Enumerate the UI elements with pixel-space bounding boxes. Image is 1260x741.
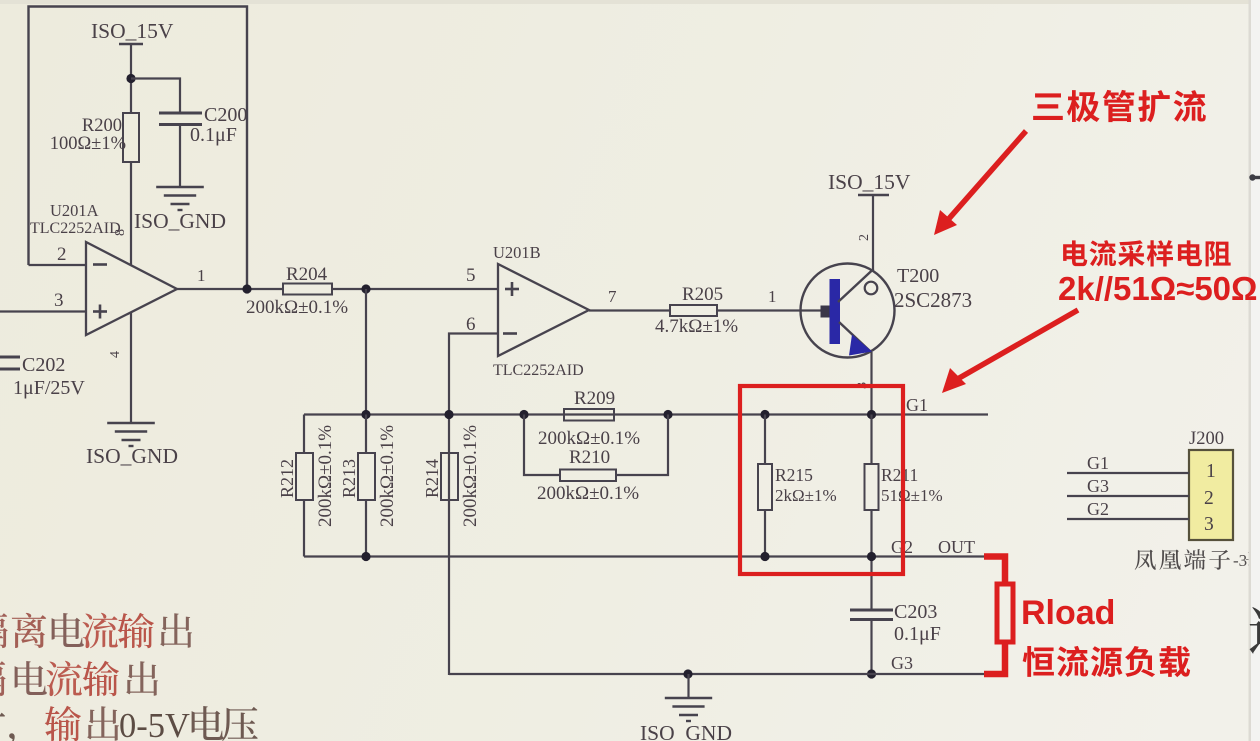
red highlight box around R215/R211 (740, 386, 903, 574)
resistor R213 (358, 453, 375, 500)
wire R210 branch (524, 415, 560, 476)
svg-text:ISO_GND: ISO_GND (86, 444, 178, 468)
svg-text:200kΩ±0.1%: 200kΩ±0.1% (538, 428, 640, 449)
resistor R212 (296, 453, 313, 500)
svg-text:1: 1 (1206, 461, 1216, 482)
partial wire stub at right edge (1251, 176, 1260, 179)
svg-text:U201A: U201A (50, 201, 99, 220)
svg-text:1μF/25V: 1μF/25V (13, 377, 85, 399)
node junction at R200/C200 (126, 74, 135, 83)
resistor R215 (758, 464, 772, 510)
svg-text:C200: C200 (204, 104, 247, 126)
svg-text:OUT: OUT (938, 537, 975, 557)
T200 emitter arrow (blue) (849, 335, 872, 356)
svg-text:4.7kΩ±1%: 4.7kΩ±1% (655, 316, 738, 337)
node R211 bottom / OUT (867, 552, 876, 561)
T200 collector stroke (838, 269, 874, 302)
node R215 bottom (760, 552, 769, 561)
annotation: 三极管扩流 (transistor current boost) (1033, 93, 1063, 120)
T200 base bar (blue) (830, 279, 841, 344)
svg-text:100Ω±1%: 100Ω±1% (50, 134, 126, 154)
svg-text:R210: R210 (569, 447, 610, 468)
svg-text:3: 3 (1204, 514, 1214, 535)
svg-text:G3: G3 (1087, 476, 1109, 496)
svg-text:TLC2252AID: TLC2252AID (493, 362, 584, 379)
capacitor C203 (850, 609, 893, 612)
capacitor C202 (cut at left edge) (0, 356, 20, 359)
red arrow to T200 (946, 131, 1026, 222)
wire emitter down to G1 bus (870, 352, 872, 415)
node R213 bottom (361, 552, 370, 561)
svg-text:2k//51Ω≈50Ω: 2k//51Ω≈50Ω (1058, 270, 1257, 307)
transistor T200 body circle (801, 264, 895, 358)
svg-text:0.1μF: 0.1μF (190, 124, 237, 146)
svg-text:Rload: Rload (1021, 594, 1115, 632)
svg-text:ISO_GND: ISO_GND (640, 721, 732, 741)
wire junction to C200 (131, 79, 180, 113)
wire R215 top (764, 415, 766, 465)
svg-text:ISO_GND: ISO_GND (134, 209, 226, 233)
svg-text:R200: R200 (82, 116, 122, 136)
svg-text:200kΩ±0.1%: 200kΩ±0.1% (460, 425, 481, 527)
svg-text:200kΩ±0.1%: 200kΩ±0.1% (315, 425, 336, 527)
node ground tap (683, 669, 692, 678)
svg-text:0.1μF: 0.1μF (894, 623, 941, 645)
svg-text:R211: R211 (881, 465, 918, 485)
Rload bracket bottom (984, 642, 1005, 674)
U201B plus input marker (505, 288, 519, 291)
svg-text:C203: C203 (894, 601, 937, 623)
svg-text:200kΩ±0.1%: 200kΩ±0.1% (377, 425, 398, 527)
op-amp U201A triangle (86, 242, 177, 335)
caption line2: (隔)电流输出 (0, 661, 6, 696)
caption line1: (隔)离电流输出 (0, 613, 8, 648)
annotation: 恒流源负载 (constant current source load) (1023, 646, 1054, 677)
wire node down to divider bus (365, 289, 367, 415)
svg-text:4: 4 (108, 351, 123, 358)
svg-text:G1: G1 (1087, 453, 1109, 473)
wire U201B output to R205 (589, 309, 670, 311)
svg-text:2SC2873: 2SC2873 (894, 288, 972, 312)
wire G1 bus (304, 413, 988, 415)
svg-text:51Ω±1%: 51Ω±1% (881, 486, 943, 505)
svg-text:2: 2 (857, 234, 872, 241)
wire R200 to U201A V+ (130, 162, 132, 265)
base pad (821, 306, 830, 318)
resistor R211 (865, 464, 879, 510)
capacitor C200 (159, 112, 202, 115)
svg-text:J200: J200 (1189, 429, 1224, 449)
wire U201A output (177, 288, 283, 290)
svg-text:2: 2 (57, 244, 67, 265)
junction nodes on G1 bus (361, 410, 370, 419)
node at R204 output (361, 284, 370, 293)
svg-text:200kΩ±0.1%: 200kΩ±0.1% (537, 483, 639, 504)
wire power to R200 (130, 44, 132, 113)
ground ISO_GND (bottom) (665, 697, 712, 700)
ground ISO_GND (top) (156, 186, 204, 189)
connector J200 body (1189, 450, 1233, 540)
svg-text:6: 6 (466, 314, 476, 335)
svg-text:R213: R213 (339, 459, 359, 498)
small loop on collector (865, 282, 878, 295)
wire C203 to G3 bus (870, 620, 872, 675)
Rload resistor symbol (997, 584, 1013, 642)
svg-text:0-5V: 0-5V (119, 707, 190, 741)
wire R213 top (365, 415, 367, 454)
wire J200 pin3 (G2) (1067, 518, 1189, 520)
svg-text:T200: T200 (897, 265, 939, 287)
wire power to collector (872, 195, 874, 271)
wire U201A V- to ground (130, 312, 132, 422)
svg-text:5: 5 (466, 265, 476, 286)
partial glyph 这 at right edge (1250, 607, 1260, 654)
T200 emitter stroke (839, 322, 871, 352)
svg-text:1: 1 (197, 266, 206, 285)
svg-text:R212: R212 (277, 459, 297, 498)
wire to bottom ground (687, 674, 689, 697)
wire R211 to G2 node (870, 510, 872, 610)
wire bus corner down to R212 (303, 415, 305, 454)
svg-text:ISO_15V: ISO_15V (828, 170, 911, 194)
svg-text:TLC2252AID: TLC2252AID (30, 220, 121, 237)
wire pin 3 from edge (0, 310, 86, 312)
svg-text:R215: R215 (775, 465, 813, 485)
wire R204 to U201B pin5 (332, 288, 497, 290)
svg-text:R214: R214 (422, 459, 442, 498)
svg-text:U201B: U201B (493, 243, 541, 262)
wire R213 to G2 bus (365, 500, 367, 557)
svg-text:R204: R204 (286, 264, 328, 285)
svg-text:R209: R209 (574, 388, 615, 409)
svg-text:7: 7 (608, 287, 617, 306)
svg-text:2kΩ±1%: 2kΩ±1% (775, 486, 837, 505)
white page strip at right edge (1249, 0, 1260, 741)
svg-text:C202: C202 (22, 354, 65, 376)
wire R215 bottom (764, 510, 766, 557)
wire G2/OUT bus (304, 555, 984, 557)
op-amp U201B triangle (498, 264, 589, 356)
U201A minus input marker (93, 263, 107, 266)
wire pin 2 (29, 264, 87, 266)
svg-text:3: 3 (54, 290, 64, 311)
wire J200 pin2 (G3) (1067, 495, 1189, 497)
wire J200 pin1 (G1) (1067, 472, 1189, 474)
resistor R200 (123, 113, 139, 162)
wire C200 to ground (179, 125, 181, 187)
wire R205 to T200 base (717, 309, 830, 311)
caption line3: (时)，输出0-5V电压 (0, 706, 5, 741)
U201B minus input marker (503, 332, 517, 335)
ground ISO_GND (below U201A) (107, 422, 155, 425)
wire R211 top (870, 415, 872, 465)
svg-text:ISO_15V: ISO_15V (91, 19, 174, 43)
svg-text:G3: G3 (891, 653, 913, 673)
wire pin 6 (449, 334, 498, 676)
wire R212 to G2 bus (303, 500, 305, 557)
svg-text:2: 2 (1204, 488, 1214, 509)
wire: feedback loop from U201A output up and around to pin 2 (29, 7, 248, 290)
red arrow to sampling resistors (954, 310, 1078, 381)
wire G3 bus (449, 673, 984, 675)
svg-text:8: 8 (113, 229, 128, 236)
node: output/feedback junction (242, 284, 251, 293)
svg-text:200kΩ±0.1%: 200kΩ±0.1% (246, 297, 348, 318)
svg-text:1: 1 (768, 287, 777, 306)
annotation: 电流采样电阻 (current sample resistor) (1063, 240, 1087, 266)
wire R210 to bus right (616, 415, 668, 476)
resistor R214 (on pin-6 vertical) (441, 453, 458, 500)
node C203 bottom (867, 669, 876, 678)
svg-text:G2: G2 (1087, 499, 1109, 519)
svg-text:G1: G1 (906, 395, 928, 415)
U201A plus input marker (93, 310, 107, 313)
Rload bracket top (984, 557, 1005, 585)
svg-text:R205: R205 (682, 284, 723, 305)
J200 note: phoenix terminal 凤凰端子-3. (1135, 550, 1156, 570)
